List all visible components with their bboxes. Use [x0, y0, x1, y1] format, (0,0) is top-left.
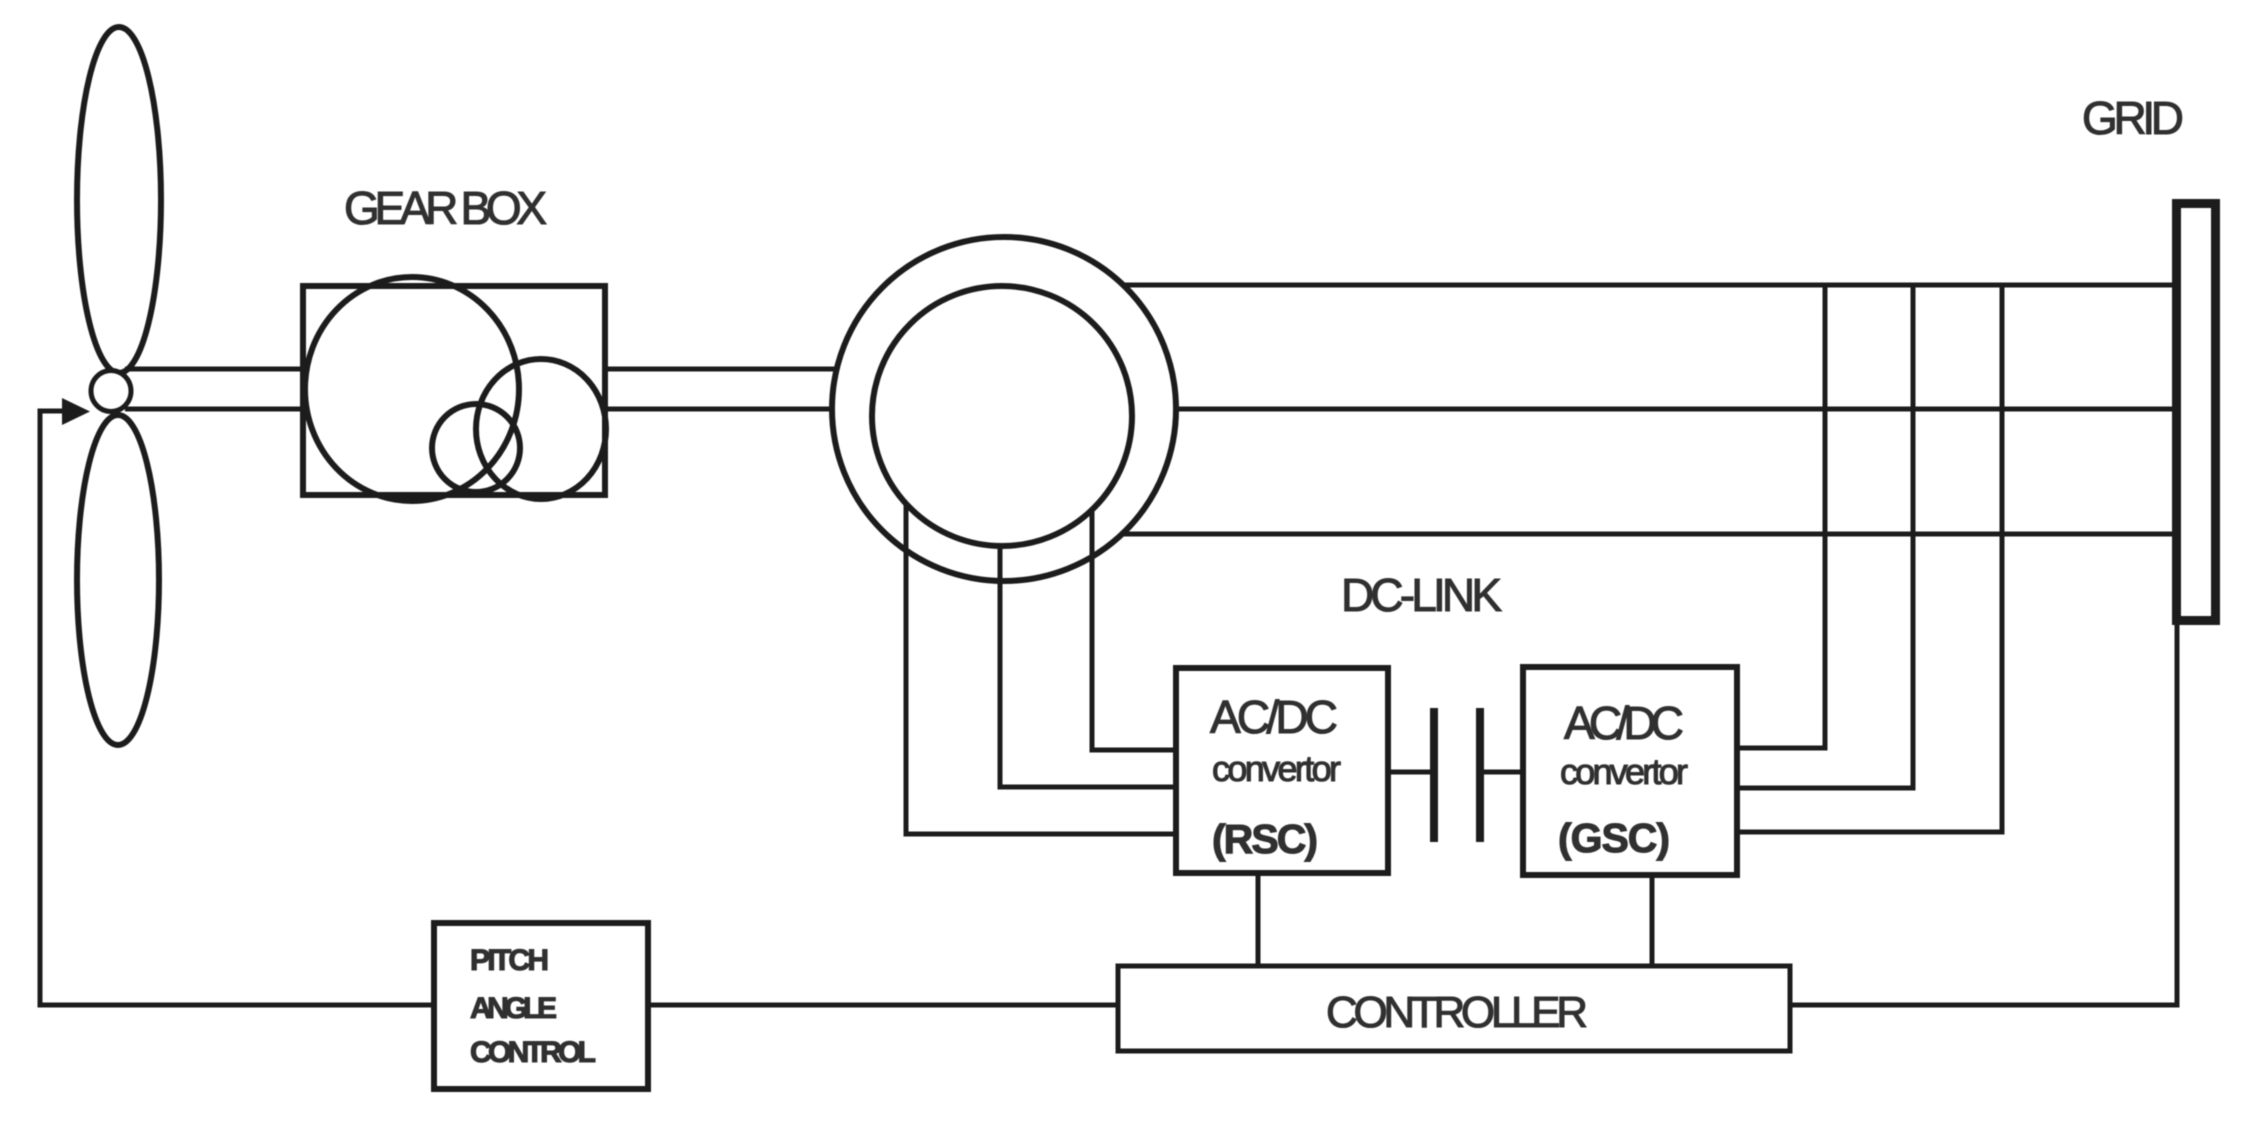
- svg-text:DC-LINK: DC-LINK: [1341, 569, 1502, 621]
- svg-text:convertor: convertor: [1212, 748, 1341, 789]
- svg-text:GEAR BOX: GEAR BOX: [344, 182, 547, 234]
- svg-text:AC/DC: AC/DC: [1210, 691, 1338, 743]
- svg-text:GRID: GRID: [2082, 92, 2184, 144]
- svg-text:CONTROLLER: CONTROLLER: [1326, 988, 1588, 1037]
- svg-text:convertor: convertor: [1560, 751, 1688, 792]
- svg-text:(RSC): (RSC): [1212, 816, 1318, 862]
- svg-text:CONTROL: CONTROL: [470, 1036, 596, 1069]
- svg-text:ANGLE: ANGLE: [470, 992, 557, 1025]
- svg-text:PITCH: PITCH: [470, 944, 549, 977]
- svg-text:AC/DC: AC/DC: [1564, 697, 1684, 749]
- svg-text:(GSC): (GSC): [1558, 815, 1670, 861]
